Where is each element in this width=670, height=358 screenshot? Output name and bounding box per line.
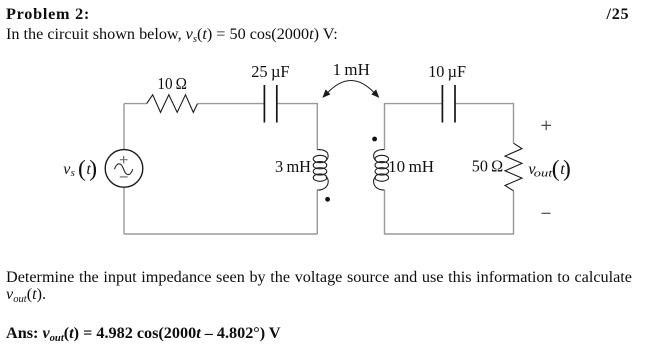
voltage source plus mark: [120, 156, 128, 164]
mutual coupling arrow arc: [326, 80, 376, 94]
inductor L1 3 mH coil: [313, 150, 328, 190]
svg-text:vout(t): vout(t): [528, 156, 570, 182]
svg-text:10 µF: 10 µF: [428, 62, 466, 81]
svg-text:10 mH: 10 mH: [388, 157, 434, 176]
svg-text:vs(t): vs(t): [63, 156, 97, 182]
points "/25": [607, 6, 630, 22]
wire: right loop top-right segment and right side to resistor: [455, 104, 514, 144]
mutual coupling arrowhead left: [322, 89, 330, 98]
voltage source sine wave: [115, 164, 133, 175]
inductor L1 polarity dot: [325, 197, 330, 202]
heading "Problem 2:": [6, 6, 90, 22]
resistor R2 50 Ohm zigzag: [505, 143, 522, 191]
svg-text:10 Ω: 10 Ω: [157, 74, 187, 93]
wire: right loop right side below resistor, bottom, and left side below inductor: [385, 190, 514, 234]
output voltage plus mark: [542, 121, 552, 131]
voltage source minus mark: [120, 176, 128, 178]
resistor R1 10 Ohm zigzag: [147, 95, 198, 113]
question paragraph line 1: [6, 269, 632, 287]
wire: left loop top middle segment (resistor to capacitor): [198, 103, 265, 105]
svg-text:1 mH: 1 mH: [333, 60, 370, 79]
svg-text:3 mH: 3 mH: [275, 157, 311, 176]
capacitor C1 25 uF plates: [264, 85, 276, 123]
wire: right loop left side above inductor and top-left segment: [385, 104, 443, 150]
mutual coupling arrowhead right: [371, 89, 379, 98]
wire: left loop right side below inductor: [316, 190, 318, 234]
inductor L2 10 mH coil: [374, 150, 389, 190]
output voltage minus mark: [542, 212, 551, 214]
question paragraph line 2: [6, 286, 46, 302]
svg-text:25 µF: 25 µF: [251, 62, 289, 81]
capacitor C2 10 uF plates: [442, 85, 455, 123]
svg-text:50 Ω: 50 Ω: [472, 156, 503, 175]
wire: left loop left side above source: [123, 104, 125, 150]
voltage source Vs circle: [105, 150, 143, 188]
answer line: [6, 325, 281, 341]
problem statement line: [6, 26, 338, 42]
wire: left loop bottom: [124, 233, 317, 235]
wire: left loop top-left segment: [124, 103, 147, 105]
inductor L2 polarity dot: [372, 137, 377, 142]
wire: left loop top-right segment and right side down to inductor: [277, 104, 318, 150]
wire: left loop left side below source: [123, 187, 125, 234]
